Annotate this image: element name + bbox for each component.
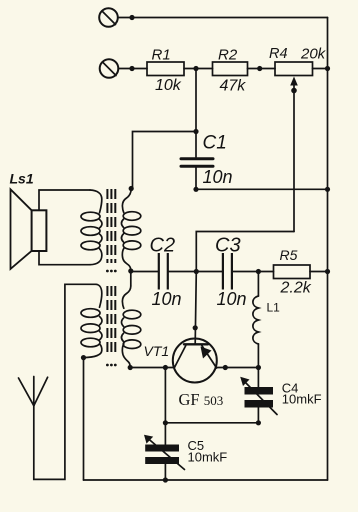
resistor R5 (274, 265, 311, 279)
wire mid row from T1/T2 node to C2 (131, 271, 158, 273)
node T2 left bottom (81, 355, 86, 360)
capacitor C1 (181, 159, 213, 167)
transformer T2 left winding (81, 284, 102, 357)
capacitor C5 (variable) (144, 435, 185, 480)
svg-text:10k: 10k (155, 77, 182, 94)
svg-text:C2: C2 (150, 234, 176, 256)
wire R2 to R4 (248, 68, 276, 70)
node bottom mid right (256, 420, 261, 425)
svg-text:C3: C3 (215, 234, 241, 256)
node bottom mid left (163, 420, 168, 425)
svg-text:GF 503: GF 503 (179, 390, 224, 409)
transformer T1 left winding (81, 190, 102, 265)
wire R5 to rail (310, 271, 328, 273)
svg-text:20k: 20k (300, 46, 327, 63)
wire top from XS1 to right rail (118, 17, 327, 19)
terminal XS1 (99, 8, 118, 27)
capacitor C4 (variable) (240, 368, 277, 423)
svg-text:10mkF: 10mkF (282, 392, 322, 407)
transistor VT1 (173, 339, 217, 383)
node R4 rail (325, 66, 330, 71)
antenna (19, 377, 48, 406)
node rail at 189 (325, 187, 330, 192)
node L1/C4 (256, 365, 261, 370)
wire XS2 to R1 (119, 68, 147, 70)
wire collector row (left of VT1) (130, 367, 174, 369)
wire C1 bottom (195, 166, 197, 189)
node XS2 junction (129, 66, 134, 71)
bottom rail (84, 479, 328, 481)
wire C3 to R5 (233, 271, 274, 273)
resistor R2 (213, 62, 248, 76)
wire C2 to C3 (169, 271, 222, 273)
wire C1 bottom to rail (196, 188, 328, 190)
wire base vertical (195, 272, 196, 344)
transformer T1 core (107, 189, 115, 353)
right rail (327, 18, 329, 481)
resistor R4 (potentiometer) (275, 62, 313, 76)
wire T1/T2 right link (130, 271, 132, 286)
node L1/R5 (256, 269, 261, 274)
node R5 rail (325, 269, 330, 274)
node T1 right top (129, 186, 134, 191)
node T2 right bottom (128, 365, 133, 370)
svg-text:L1: L1 (267, 301, 281, 315)
inductor L1 (253, 272, 259, 368)
terminal XS2 (100, 59, 119, 78)
svg-text:R4: R4 (269, 46, 288, 62)
node A (R1/R2/C1) (193, 66, 198, 71)
node base dot (193, 325, 198, 330)
transformer T2 right winding (122, 286, 141, 368)
svg-text:R5: R5 (280, 247, 298, 263)
svg-text:10mkF: 10mkF (188, 449, 228, 464)
svg-text:R2: R2 (218, 47, 238, 64)
svg-text:2.2k: 2.2k (280, 280, 312, 297)
wire bottom mid row (165, 422, 258, 424)
node C2/C3 (base node) (194, 269, 199, 274)
resistor R1 (147, 62, 184, 76)
node T1/T2 right (128, 268, 133, 273)
wire C1 vertical from node A (195, 69, 197, 158)
svg-text:47k: 47k (220, 78, 247, 95)
wire antenna riser to T2 (34, 284, 96, 479)
wire R1 to R2 (184, 68, 213, 70)
transformer T1 right winding (122, 189, 141, 271)
node B (R2/R4) (257, 66, 262, 71)
wire wiper vertical (293, 84, 295, 232)
svg-text:R1: R1 (152, 47, 171, 64)
node top junction (129, 15, 134, 20)
node emitter (223, 365, 228, 370)
wire C5 branch vertical (164, 368, 166, 445)
wire T1 to C1 feed (133, 132, 197, 190)
node C1 bottom (193, 187, 198, 192)
wire T2 left bottom to bottom rail (83, 358, 85, 480)
svg-text:10n: 10n (203, 167, 233, 187)
wire R4 to rail (313, 68, 328, 70)
svg-text:VT1: VT1 (144, 343, 170, 359)
svg-text:10n: 10n (152, 289, 182, 309)
capacitor C3 (223, 253, 232, 290)
wire emitter row (right of VT1) (217, 367, 259, 369)
R4 wiper arrow (290, 77, 298, 86)
svg-text:10n: 10n (217, 289, 247, 309)
capacitor C2 (159, 253, 168, 290)
node C5 rail (163, 477, 168, 482)
core gap dots (106, 270, 117, 367)
node C1 top feed (193, 129, 198, 134)
speaker Ls1 (11, 189, 91, 269)
node wiper dot (291, 88, 297, 94)
svg-text:Ls1: Ls1 (10, 171, 34, 187)
svg-text:C1: C1 (203, 133, 227, 154)
node C5 branch (163, 365, 168, 370)
wire wiper staircase to C2/C3 node (196, 232, 294, 272)
